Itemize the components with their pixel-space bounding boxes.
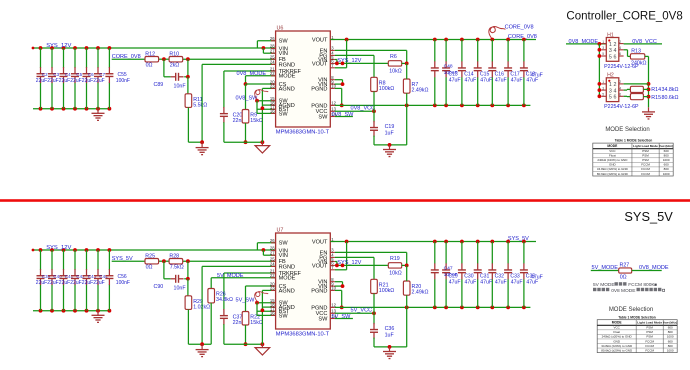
svg-text:R25: R25 — [145, 254, 155, 260]
svg-text:H1: H1 — [607, 32, 614, 38]
svg-text:C89: C89 — [154, 82, 164, 88]
svg-text:4: 4 — [619, 86, 621, 90]
wire VOUT rail SYS_5V — [330, 240, 536, 244]
svg-text:FCCM: FCCM — [641, 167, 650, 171]
svg-text:1uF: 1uF — [385, 332, 395, 338]
svg-text:3: 3 — [602, 46, 604, 50]
svg-text:600: 600 — [668, 326, 673, 330]
svg-text:PSM: PSM — [642, 154, 649, 158]
wire mid ground rail right — [224, 342, 264, 346]
annotation red squiggle near AGND — [255, 90, 269, 101]
svg-text:22uF: 22uF — [70, 78, 81, 84]
svg-text:MODE: MODE — [607, 144, 618, 148]
svg-text:MPM3683GMN-10-T: MPM3683GMN-10-T — [276, 129, 330, 135]
wire SW stub right — [335, 318, 353, 320]
ground mid left — [196, 143, 209, 155]
svg-text:22: 22 — [270, 273, 275, 278]
power module U7 MPM3683GMN-10-T — [276, 228, 331, 338]
svg-text:47uF: 47uF — [495, 279, 507, 285]
svg-text:P2254V-12-6P: P2254V-12-6P — [604, 104, 639, 110]
wire FB chain — [112, 259, 276, 263]
svg-text:SW: SW — [279, 241, 289, 247]
svg-text:1: 1 — [602, 40, 604, 44]
capacitor C17 47uF — [504, 40, 512, 106]
wire output ground rail — [433, 240, 526, 310]
svg-text:1000: 1000 — [667, 335, 674, 339]
svg-text:FCCM: FCCM — [641, 163, 650, 167]
svg-text:PSM: PSM — [646, 326, 653, 330]
capacitor C48 100nF — [431, 40, 439, 106]
svg-text:RGND: RGND — [279, 264, 295, 270]
svg-text:1000: 1000 — [663, 172, 670, 176]
pins left side U7 — [270, 238, 302, 319]
svg-text:PGND: PGND — [311, 86, 327, 92]
svg-text:22uF: 22uF — [47, 280, 58, 286]
wire SW loop to VIN rail — [257, 243, 275, 250]
svg-text:6: 6 — [614, 95, 617, 101]
resistor R8 100kΩ — [371, 77, 395, 111]
svg-text:MODE: MODE — [279, 276, 296, 282]
svg-text:16: 16 — [270, 109, 275, 114]
capacitor C7 22uF — [94, 48, 106, 109]
svg-text:R13: R13 — [631, 48, 641, 54]
svg-text:R10: R10 — [169, 52, 179, 58]
svg-text:0V8_SW: 0V8_SW — [236, 96, 259, 102]
wire CS — [246, 286, 276, 312]
ground mid right — [255, 344, 270, 355]
resistor R19 10kΩ — [388, 256, 408, 276]
svg-text:MODE: MODE — [279, 74, 296, 80]
svg-text:5: 5 — [602, 93, 604, 97]
svg-text:47uF: 47uF — [449, 279, 461, 285]
wire TRKREF — [224, 71, 276, 108]
wire PGND rail — [335, 104, 531, 108]
wire H1 pin4 to R13 — [624, 50, 631, 57]
svg-text:34.8kΩ (±20%) to GND: 34.8kΩ (±20%) to GND — [601, 344, 633, 348]
wire header right bus — [624, 56, 651, 107]
svg-text:SYS_12V: SYS_12V — [46, 245, 71, 251]
capacitor C44 22uF — [94, 250, 108, 311]
wire RGND to ground — [202, 64, 276, 142]
capacitor C42 22uF — [71, 250, 85, 311]
svg-text:fsw (kHz): fsw (kHz) — [663, 321, 677, 325]
svg-text:240kΩ (±20%) to GND: 240kΩ (±20%) to GND — [597, 158, 628, 162]
resistor R26 34.8kΩ — [208, 289, 233, 345]
svg-text:FCCM: FCCM — [641, 172, 650, 176]
capacitor C40 22uF — [48, 250, 62, 311]
wire PG — [335, 55, 374, 77]
wire FB chain — [112, 57, 276, 61]
wire 0V8_MODE to H1 — [566, 42, 606, 46]
svg-text:VCC: VCC — [609, 149, 616, 153]
resistor R15 80.6kΩ — [624, 94, 679, 101]
svg-text:23: 23 — [270, 286, 275, 291]
power module U6 MPM3683GMN-10-T — [276, 26, 331, 136]
svg-text:34.8kΩ: 34.8kΩ — [216, 297, 233, 303]
wire VIN drop — [262, 46, 276, 53]
capacitor C89 10nF — [154, 59, 190, 89]
svg-text:7.5kΩ: 7.5kΩ — [170, 265, 184, 271]
svg-text:VCC: VCC — [614, 326, 621, 330]
svg-text:240kΩ: 240kΩ — [631, 60, 646, 66]
svg-text:47uF: 47uF — [511, 77, 523, 83]
wire VOUT to VOUT sense vertical — [335, 242, 347, 270]
resistor R9 15kΩ — [242, 110, 263, 145]
value labels input caps — [36, 280, 130, 286]
svg-text:Table 1 MODE Selection: Table 1 MODE Selection — [615, 139, 653, 143]
capacitor C90 10nF — [154, 261, 190, 291]
capacitor C35 47uF — [520, 242, 528, 308]
capacitor C56 100nF — [105, 250, 113, 311]
svg-text:U6: U6 — [277, 26, 284, 32]
text note 5V MODE chinese line2 — [593, 288, 665, 294]
svg-text:VOUT: VOUT — [312, 61, 328, 67]
wire PGND rail — [335, 306, 531, 310]
svg-text:6: 6 — [619, 93, 621, 97]
svg-text:100nF: 100nF — [116, 280, 130, 286]
svg-text:C90: C90 — [154, 284, 164, 290]
svg-text:22uF: 22uF — [59, 78, 70, 84]
wire VIN to R19 — [335, 262, 388, 268]
net label CORE_0V8 annotation — [489, 24, 534, 39]
svg-text:C56: C56 — [118, 274, 127, 280]
svg-text:3: 3 — [602, 86, 604, 90]
svg-text:R28: R28 — [169, 254, 179, 260]
svg-text:PSM: PSM — [642, 149, 649, 153]
resistor R27 0Ω — [619, 262, 632, 280]
ground VCC cap — [383, 345, 396, 359]
capacitor C16 47uF — [488, 40, 496, 106]
svg-text:5: 5 — [602, 52, 604, 56]
svg-text:C5: C5 — [76, 72, 82, 77]
svg-text:800: 800 — [664, 167, 669, 171]
svg-text:22uF: 22uF — [93, 280, 104, 286]
svg-text:H2: H2 — [607, 73, 614, 79]
svg-text:5: 5 — [609, 54, 612, 60]
svg-text:R19: R19 — [390, 256, 400, 262]
svg-text:47uF: 47uF — [531, 275, 543, 281]
svg-text:MODE Selection: MODE Selection — [609, 307, 653, 313]
svg-text:3: 3 — [609, 88, 612, 94]
wire VCC 5V_VCC — [335, 311, 376, 315]
svg-text:VOUT: VOUT — [312, 37, 328, 43]
svg-text:U7: U7 — [277, 228, 284, 234]
capacitor C5 22uF — [71, 48, 83, 109]
wire VCC 0V8_VCC — [335, 109, 376, 113]
capacitor C36 1uF — [370, 307, 407, 347]
wire SW stub right — [335, 116, 353, 118]
pins right side U6 — [311, 35, 336, 121]
ground header network — [642, 107, 655, 119]
wire SW cluster — [255, 99, 276, 114]
svg-text:1: 1 — [609, 82, 612, 88]
svg-text:80.6kΩ (±20%) to GND: 80.6kΩ (±20%) to GND — [597, 172, 629, 176]
svg-text:Controller_CORE_0V8: Controller_CORE_0V8 — [566, 10, 682, 22]
wire R27 left — [591, 270, 619, 272]
resistor R7 2.49kΩ — [403, 63, 428, 105]
svg-text:SYS_5V: SYS_5V — [624, 209, 673, 224]
svg-text:3: 3 — [609, 48, 612, 54]
svg-text:0Ω: 0Ω — [620, 274, 627, 280]
wire VIN pins join — [335, 282, 345, 288]
svg-text:SYS_5V: SYS_5V — [508, 236, 529, 242]
svg-text:SW: SW — [318, 316, 328, 322]
svg-text:2.49kΩ: 2.49kΩ — [412, 88, 429, 94]
wire input ground rail — [33, 309, 111, 313]
svg-text:600: 600 — [668, 339, 673, 343]
svg-text:1000: 1000 — [663, 158, 670, 162]
svg-text:23: 23 — [270, 84, 275, 89]
svg-text:100kΩ: 100kΩ — [379, 288, 394, 294]
svg-text:MODE: MODE — [612, 321, 623, 325]
svg-text:Light Load Mode: Light Load Mode — [633, 144, 658, 148]
svg-text:15kΩ: 15kΩ — [250, 320, 263, 326]
svg-text:0V8_MODE: 0V8_MODE — [639, 265, 669, 271]
svg-text:47uF: 47uF — [531, 73, 543, 79]
svg-text:C48: C48 — [444, 64, 453, 70]
svg-text:10nF: 10nF — [174, 285, 187, 291]
svg-text:SW: SW — [279, 313, 289, 319]
resistor R6 10kΩ — [388, 54, 408, 74]
svg-text:24: 24 — [270, 262, 275, 267]
capacitor C32 47uF — [488, 242, 496, 308]
wire VIN to R6 — [335, 60, 388, 66]
svg-text:800: 800 — [668, 330, 673, 334]
wire CS — [246, 84, 276, 110]
svg-text:16: 16 — [270, 311, 275, 316]
svg-text:C7: C7 — [99, 72, 105, 77]
svg-text:26: 26 — [270, 36, 275, 41]
capacitor C43 22uF — [83, 250, 97, 311]
svg-text:4: 4 — [614, 88, 617, 94]
pins left side U6 — [270, 36, 302, 117]
svg-text:R15: R15 — [651, 95, 661, 101]
resistor R11 5.5kΩ — [185, 77, 207, 142]
svg-text:0V8 MODE: 0V8 MODE — [611, 288, 635, 294]
svg-text:PSM: PSM — [646, 335, 653, 339]
ground input bank — [92, 109, 105, 121]
svg-text:22: 22 — [270, 71, 275, 76]
wire mid ground rail left — [188, 140, 204, 144]
svg-text:47uF: 47uF — [480, 279, 492, 285]
svg-text:AGND: AGND — [279, 86, 295, 92]
ground mid left — [196, 345, 209, 357]
svg-text:600: 600 — [664, 163, 669, 167]
svg-text:MODE Selection: MODE Selection — [605, 127, 649, 133]
wire PGND join — [335, 88, 344, 107]
svg-text:SW: SW — [279, 39, 289, 45]
svg-text:80.6kΩ: 80.6kΩ — [662, 95, 679, 101]
svg-text:R12: R12 — [145, 52, 155, 58]
wire MODE — [244, 76, 276, 86]
svg-text:47uF: 47uF — [495, 77, 507, 83]
resistor R22 15kΩ — [242, 312, 263, 347]
svg-text:800: 800 — [664, 154, 669, 158]
svg-text:FCCM: FCCM — [645, 339, 654, 343]
svg-text:SW: SW — [318, 114, 328, 120]
svg-text:FCCM: FCCM — [645, 348, 654, 352]
wire R27 right — [632, 270, 662, 272]
svg-text:22uF: 22uF — [82, 280, 93, 286]
wire header left bus — [598, 44, 602, 98]
svg-text:PSM: PSM — [642, 158, 649, 162]
svg-text:FCCM: FCCM — [645, 344, 654, 348]
svg-text:PGND: PGND — [311, 288, 327, 294]
svg-text:10kΩ: 10kΩ — [389, 68, 402, 74]
wire RGND to ground — [202, 266, 276, 344]
svg-text:C4: C4 — [65, 72, 71, 77]
wire SYS_12V input rail — [32, 46, 276, 50]
capacitor C6 22uF — [83, 48, 95, 109]
svg-text:C36: C36 — [385, 326, 395, 332]
wire mid ground rail left — [188, 342, 211, 346]
resistor R25 0Ω — [145, 254, 159, 271]
svg-text:0V8_VCC: 0V8_VCC — [351, 106, 376, 112]
svg-text:1000: 1000 — [667, 348, 674, 352]
value labels input caps — [36, 78, 130, 84]
svg-text:AGND: AGND — [279, 288, 295, 294]
svg-text:R27: R27 — [620, 262, 630, 268]
svg-text:CORE_0V8: CORE_0V8 — [505, 24, 534, 30]
table MODE selection top — [593, 143, 673, 176]
annotation red squiggle near AGND — [255, 292, 269, 303]
svg-text:600: 600 — [664, 149, 669, 153]
capacitor C30 47uF — [458, 242, 466, 308]
svg-text:Float: Float — [613, 330, 620, 334]
table MODE selection bottom — [597, 320, 677, 353]
svg-text:PSM: PSM — [646, 330, 653, 334]
capacitor C2 22uF — [37, 48, 49, 109]
capacitor C55 100nF — [105, 48, 113, 109]
capacitor C14 47uF — [458, 40, 466, 106]
pins right side U7 — [311, 237, 336, 323]
svg-text:SW: SW — [279, 111, 289, 117]
svg-text:C6: C6 — [88, 72, 94, 77]
wire H1 pin2 to 0V8_VCC — [624, 43, 662, 45]
svg-text:4: 4 — [619, 46, 621, 50]
svg-text:47uF: 47uF — [449, 77, 461, 83]
svg-text:6: 6 — [614, 54, 617, 60]
wire mid ground rail right — [224, 140, 264, 144]
red section divider line — [0, 199, 690, 202]
svg-text:800: 800 — [668, 344, 673, 348]
svg-text:47uF: 47uF — [465, 279, 477, 285]
svg-text:10kΩ: 10kΩ — [389, 270, 402, 276]
wire EN — [335, 252, 407, 265]
svg-text:RGND: RGND — [279, 62, 295, 68]
svg-text:FCCM 800K: FCCM 800K — [628, 282, 655, 288]
svg-text:10nF: 10nF — [174, 83, 187, 89]
wire PGND join — [335, 290, 344, 309]
svg-text:22uF: 22uF — [36, 78, 47, 84]
svg-text:SYS_12V: SYS_12V — [46, 43, 71, 49]
capacitor C18 47uF — [520, 40, 528, 106]
svg-text:22uF: 22uF — [47, 78, 58, 84]
capacitor C3 22uF — [48, 48, 60, 109]
svg-text:1: 1 — [602, 80, 604, 84]
svg-text:27: 27 — [270, 49, 275, 54]
wire PG — [335, 257, 374, 279]
wire AGND cluster — [261, 88, 276, 142]
svg-text:C47: C47 — [444, 266, 453, 272]
svg-text:MPM3683GMN-10-T: MPM3683GMN-10-T — [276, 331, 330, 337]
resistor R10 2kΩ — [169, 52, 183, 69]
svg-text:GND: GND — [609, 163, 617, 167]
svg-text:C55: C55 — [118, 72, 127, 78]
capacitor C39 22uF — [37, 250, 51, 311]
labels output caps — [444, 64, 543, 84]
capacitor C29 47uF — [442, 242, 450, 308]
wire VIN drop — [262, 248, 276, 255]
text note 5V MODE chinese line1 — [593, 282, 657, 288]
capacitor C31 47uF — [474, 242, 482, 308]
capacitor C4 22uF — [60, 48, 72, 109]
svg-text:34.8kΩ (±20%) to GND: 34.8kΩ (±20%) to GND — [597, 167, 629, 171]
svg-text:Light Load Mode: Light Load Mode — [637, 321, 662, 325]
svg-text:2: 2 — [619, 80, 621, 84]
connector H2 P2254V-12-6P — [602, 73, 640, 111]
svg-text:22uF: 22uF — [36, 280, 47, 286]
svg-text:34.8kΩ: 34.8kΩ — [662, 87, 679, 93]
svg-text:6: 6 — [619, 52, 621, 56]
resistor R20 2.49kΩ — [403, 265, 428, 307]
svg-text:100nF: 100nF — [116, 78, 130, 84]
svg-text:VOUT: VOUT — [312, 239, 328, 245]
capacitor C47 100nF — [431, 242, 439, 308]
svg-text:47uF: 47uF — [480, 77, 492, 83]
svg-text:80.6kΩ (±20%) to GND: 80.6kΩ (±20%) to GND — [601, 348, 633, 352]
resistor R28 7.5kΩ — [169, 254, 184, 271]
ground input bank — [92, 311, 105, 323]
svg-text:2.49kΩ: 2.49kΩ — [412, 290, 429, 296]
svg-text:2kΩ: 2kΩ — [170, 63, 180, 69]
wire input ground rail — [33, 107, 111, 111]
capacitor C15 47uF — [474, 40, 482, 106]
svg-text:0Ω: 0Ω — [146, 63, 153, 69]
wire TRKREF — [224, 273, 276, 310]
svg-text:100kΩ: 100kΩ — [379, 86, 394, 92]
svg-text:C19: C19 — [385, 124, 395, 130]
svg-text:GND: GND — [613, 339, 621, 343]
wire AGND cluster — [261, 290, 276, 344]
capacitor C37 22nF — [220, 309, 246, 344]
svg-text:2: 2 — [614, 42, 617, 48]
svg-text:0Ω: 0Ω — [146, 265, 153, 271]
svg-text:C3: C3 — [53, 72, 59, 77]
svg-text:5: 5 — [609, 95, 612, 101]
wire VOUT to VOUT sense vertical — [335, 40, 347, 68]
svg-text:2: 2 — [614, 82, 617, 88]
resistor R14 34.8kΩ — [624, 86, 679, 93]
svg-text:22uF: 22uF — [70, 280, 81, 286]
labels output caps — [444, 266, 543, 286]
svg-text:5V_SW: 5V_SW — [236, 298, 256, 304]
svg-text:5.5kΩ: 5.5kΩ — [193, 102, 207, 108]
svg-text:fsw (kHz): fsw (kHz) — [659, 144, 673, 148]
svg-text:5V MODE: 5V MODE — [593, 282, 615, 288]
capacitor C19 1uF — [370, 105, 407, 144]
svg-text:R6: R6 — [390, 54, 397, 60]
svg-text:26: 26 — [270, 238, 275, 243]
wire VOUT rail CORE_0V8 — [330, 38, 536, 42]
connector H1 P2254V-12-6P — [602, 32, 640, 70]
capacitor C13 47uF — [442, 40, 450, 106]
wire EN — [335, 50, 407, 63]
svg-text:1: 1 — [609, 42, 612, 48]
svg-text:22uF: 22uF — [59, 280, 70, 286]
svg-text:R14: R14 — [651, 87, 661, 93]
svg-text:1uF: 1uF — [385, 130, 395, 136]
